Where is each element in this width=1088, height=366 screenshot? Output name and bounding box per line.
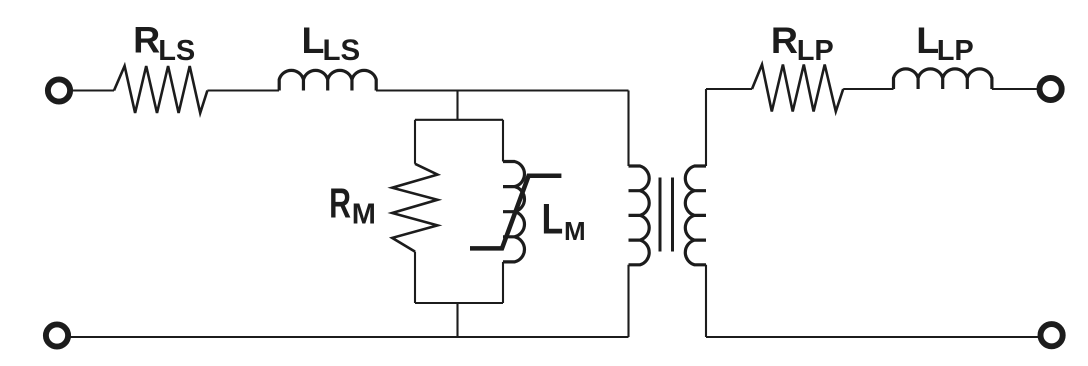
- label L_LS: [302, 19, 361, 67]
- wire top rail transformer to R_LP: [706, 88, 752, 90]
- label L_LP: [916, 19, 974, 67]
- transformer core line 2: [671, 178, 674, 252]
- wire bottom rail right: [706, 336, 1043, 338]
- saturable-core slash of L_M: [470, 176, 561, 249]
- svg-text:L: L: [916, 19, 939, 61]
- wire transformer left lead lower: [627, 265, 629, 337]
- wire shunt box left lower: [414, 252, 416, 303]
- terminal bottom-right: [1041, 324, 1063, 346]
- wire shunt box right lower: [502, 262, 504, 303]
- wire top-left terminal to R_LS: [73, 89, 115, 91]
- wire shunt box left upper: [414, 120, 416, 164]
- label R_LP: [771, 19, 834, 67]
- svg-text:R: R: [329, 180, 351, 227]
- resistor R_M: [392, 164, 437, 252]
- svg-text:L: L: [302, 19, 325, 61]
- wire bottom rail left: [71, 336, 629, 338]
- resistor R_LS: [114, 66, 207, 113]
- resistor R_LP: [752, 65, 843, 112]
- label R_LS: [133, 19, 195, 67]
- wire R_LP to L_LP: [843, 88, 893, 90]
- transformer left winding: [629, 166, 650, 265]
- wire transformer left lead upper: [627, 91, 629, 167]
- svg-text:M: M: [352, 198, 376, 230]
- transformer right winding: [685, 166, 706, 265]
- label R_M: [329, 180, 376, 230]
- inductor L_LS: [279, 70, 376, 90]
- terminal top-left: [48, 79, 70, 101]
- svg-text:LS: LS: [323, 34, 361, 67]
- wire junction stub to shunt box: [456, 91, 458, 120]
- label L_M: [542, 196, 586, 246]
- wire top rail L_LS to transformer: [376, 89, 629, 91]
- wire L_LP to top-right terminal: [992, 88, 1037, 90]
- svg-text:R: R: [133, 19, 160, 61]
- terminal bottom-left: [46, 324, 68, 346]
- svg-text:R: R: [771, 19, 798, 61]
- wire stub shunt box to bottom rail: [456, 303, 458, 337]
- wire transformer right lead lower: [705, 265, 707, 337]
- inductor L_LP: [894, 69, 992, 89]
- svg-text:L: L: [542, 196, 564, 243]
- wire shunt box top: [415, 119, 503, 121]
- wire shunt box right upper: [502, 120, 504, 162]
- terminal top-right: [1040, 78, 1062, 100]
- wire shunt box bottom: [415, 302, 503, 304]
- svg-text:LS: LS: [158, 35, 195, 67]
- svg-text:LP: LP: [937, 35, 974, 67]
- svg-text:M: M: [564, 216, 586, 246]
- svg-text:LP: LP: [797, 35, 834, 67]
- wire R_LS to L_LS: [207, 89, 279, 91]
- inductor L_M: [503, 162, 524, 262]
- wire transformer right lead upper: [705, 89, 707, 166]
- transformer core line 1: [659, 178, 662, 252]
